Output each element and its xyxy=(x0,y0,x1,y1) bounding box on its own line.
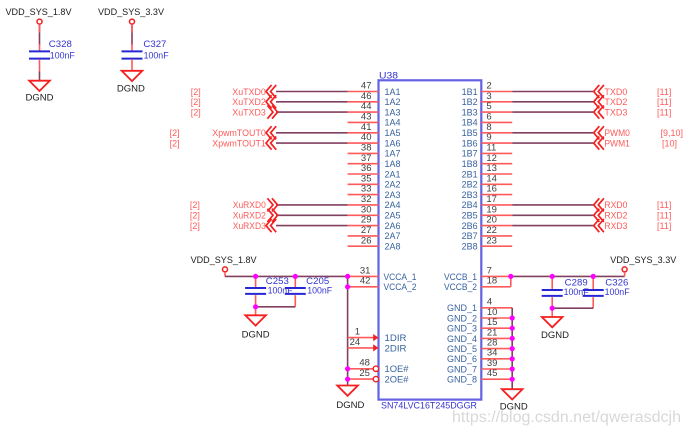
svg-text:VDD_SYS_1.8V: VDD_SYS_1.8V xyxy=(191,255,257,265)
pin 4 (GND_1) stub xyxy=(447,297,512,314)
svg-text:XuTXD0: XuTXD0 xyxy=(232,87,266,97)
svg-text:DGND: DGND xyxy=(336,400,365,410)
wire pin to net PWM0 xyxy=(512,132,593,134)
pin 25 (2OE#) with bubble xyxy=(348,368,409,385)
svg-text:1DIR: 1DIR xyxy=(385,333,408,343)
pin 11 (1B7) right stub xyxy=(462,143,513,159)
pin 46 (1A2) left stub xyxy=(348,91,401,107)
ground DGND (under C289) xyxy=(541,317,570,340)
svg-text:2B1: 2B1 xyxy=(462,169,478,179)
power symbol VDD_SYS_3.3V (bottom-right) xyxy=(610,255,676,272)
svg-text:1A5: 1A5 xyxy=(385,128,401,138)
svg-text:XuRXD2: XuRXD2 xyxy=(233,211,266,221)
pin 42 (VCCA_2) stub xyxy=(348,276,417,293)
node XuTXD0 off-page connector xyxy=(232,85,276,98)
pin 6 (1B4) right stub xyxy=(462,112,513,128)
svg-text:[11]: [11] xyxy=(657,211,671,221)
svg-text:VDD_SYS_3.3V: VDD_SYS_3.3V xyxy=(98,7,164,17)
pin 39 (GND_7) stub xyxy=(447,358,512,375)
pin 30 (2A5) left stub xyxy=(348,204,401,220)
svg-text:[2]: [2] xyxy=(191,97,201,107)
svg-text:DGND: DGND xyxy=(117,83,146,93)
svg-text:2A2: 2A2 xyxy=(385,180,401,190)
wire C327 to ground xyxy=(131,59,133,71)
pin 40 (1A6) left stub xyxy=(348,132,401,148)
junction C205 top xyxy=(293,274,298,279)
svg-text:GND_4: GND_4 xyxy=(447,334,477,344)
capacitor C289 100nF xyxy=(542,276,589,296)
pin 33 (2A3) left stub xyxy=(348,184,401,200)
pin 14 (2B2) right stub xyxy=(462,173,513,189)
pin 1 (1DIR) with input arrow xyxy=(348,327,407,344)
svg-text:2B3: 2B3 xyxy=(462,190,478,200)
svg-text:2A1: 2A1 xyxy=(385,169,401,179)
svg-text:32: 32 xyxy=(361,194,372,205)
pin 20 (2B6) right stub xyxy=(462,215,513,231)
ground DGND (under C328) xyxy=(26,81,55,103)
svg-text:100nF: 100nF xyxy=(50,51,75,61)
node XuTXD3 off-page connector xyxy=(232,106,277,119)
pin 10 (GND_2) stub xyxy=(447,307,512,324)
capacitor C327 100nF xyxy=(122,39,170,60)
svg-text:1B7: 1B7 xyxy=(462,149,478,159)
capacitor C328 100nF xyxy=(29,39,75,60)
wire GND bus vertical to ground xyxy=(511,308,513,390)
svg-text:1A8: 1A8 xyxy=(385,159,401,169)
svg-text:2A4: 2A4 xyxy=(385,200,401,210)
pin 38 (1A7) left stub xyxy=(348,143,401,159)
svg-text:2B4: 2B4 xyxy=(462,200,478,210)
svg-text:1A2: 1A2 xyxy=(385,97,401,107)
svg-text:45: 45 xyxy=(487,368,498,379)
wire VDD_SYS_3.3V to C327 xyxy=(131,24,133,50)
pin 26 (2A8) left stub xyxy=(348,235,401,251)
wire net XuTXD3 to pin xyxy=(276,111,348,113)
svg-text:VCCA_1: VCCA_1 xyxy=(384,272,417,282)
svg-text:VCCB_1: VCCB_1 xyxy=(444,272,477,282)
svg-text:[11]: [11] xyxy=(657,97,671,107)
pin 44 (1A3) left stub xyxy=(348,101,401,117)
svg-text:2A6: 2A6 xyxy=(385,221,401,231)
svg-text:23: 23 xyxy=(486,235,497,246)
wire VDD_SYS_1.8V to C328 xyxy=(39,24,41,50)
power symbol VDD_SYS_3.3V (top-left) xyxy=(98,7,164,24)
svg-text:24: 24 xyxy=(350,337,361,348)
svg-text:GND_3: GND_3 xyxy=(447,324,477,334)
svg-text:1A1: 1A1 xyxy=(385,87,401,97)
svg-text:1B4: 1B4 xyxy=(462,118,478,128)
junction pin42 xyxy=(345,284,350,289)
wire VDD_SYS_1.8V rail to VCCA pins xyxy=(225,272,348,277)
svg-text:18: 18 xyxy=(487,276,498,287)
svg-text:[2]: [2] xyxy=(191,87,201,97)
svg-text:100nF: 100nF xyxy=(605,287,630,297)
wire net XuRXD0 to pin xyxy=(276,204,348,206)
pin 12 (1B8) right stub xyxy=(462,153,513,169)
wire VCCB rail to VDD_SYS_3.3V xyxy=(511,272,625,277)
svg-text:100nF: 100nF xyxy=(144,51,169,61)
junction pin7/pin18 rail xyxy=(508,274,513,279)
svg-text:25: 25 xyxy=(359,368,370,379)
pin 7 (VCCB_1) stub xyxy=(444,265,511,282)
wire C289/C326 bottoms to ground xyxy=(552,297,593,317)
svg-text:43: 43 xyxy=(361,112,372,123)
svg-text:6: 6 xyxy=(486,112,491,123)
junction GND_2 xyxy=(510,315,515,320)
svg-text:XuRXD3: XuRXD3 xyxy=(233,221,266,231)
ground DGND (under C327) xyxy=(117,71,146,94)
op-amp U38 body (level shifter IC SN74LVC16T245DGGR) xyxy=(379,70,482,399)
svg-text:1A3: 1A3 xyxy=(385,107,401,117)
pin 21 (GND_4) stub xyxy=(447,327,512,344)
junction 1OE# xyxy=(345,366,350,371)
svg-text:C326: C326 xyxy=(605,277,628,287)
capacitor C326 100nF xyxy=(583,276,630,296)
svg-text:RXD2: RXD2 xyxy=(604,211,627,221)
svg-text:DGND: DGND xyxy=(541,330,570,340)
pin 17 (2B4) right stub xyxy=(462,194,513,210)
wire pin to net PWM1 xyxy=(512,142,593,144)
junction rail/pin31 xyxy=(345,274,350,279)
svg-text:DGND: DGND xyxy=(26,93,55,103)
svg-text:C205: C205 xyxy=(306,276,329,286)
wire net XpwmTOUT0 to pin xyxy=(276,132,348,134)
svg-text:GND_7: GND_7 xyxy=(447,364,477,374)
pin 22 (2B7) right stub xyxy=(462,225,513,241)
svg-text:1B8: 1B8 xyxy=(462,159,478,169)
svg-text:1B6: 1B6 xyxy=(462,138,478,148)
wire pin to net RXD3 xyxy=(512,225,593,227)
junction 2OE# xyxy=(345,377,350,382)
pin 34 (GND_6) stub xyxy=(447,348,512,365)
svg-text:GND_5: GND_5 xyxy=(447,344,477,354)
junction C253 bottom / ground tap xyxy=(253,304,258,309)
wire net XuRXD2 to pin xyxy=(276,214,348,216)
power symbol VDD_SYS_1.8V (bottom-left) xyxy=(191,255,257,272)
svg-text:1A7: 1A7 xyxy=(385,149,401,159)
node RXD2 off-page connector xyxy=(594,209,628,222)
svg-text:XuRXD0: XuRXD0 xyxy=(233,200,266,210)
svg-text:GND_1: GND_1 xyxy=(447,303,477,313)
pin 29 (2A6) left stub xyxy=(348,215,401,231)
wire pin to net RXD2 xyxy=(512,214,593,216)
svg-text:17: 17 xyxy=(486,194,497,205)
node TXD2 off-page connector xyxy=(594,95,628,108)
svg-text:[2]: [2] xyxy=(190,200,200,210)
node TXD0 off-page connector xyxy=(594,85,628,98)
svg-text:1B5: 1B5 xyxy=(462,128,478,138)
svg-text:XpwmTOUT0: XpwmTOUT0 xyxy=(212,128,266,138)
wire net XuTXD2 to pin xyxy=(276,101,348,103)
svg-text:XuTXD2: XuTXD2 xyxy=(232,97,266,107)
junction GND_5 xyxy=(510,346,515,351)
svg-text:VDD_SYS_1.8V: VDD_SYS_1.8V xyxy=(6,7,72,17)
pin 19 (2B5) right stub xyxy=(462,204,513,220)
pin 35 (2A2) left stub xyxy=(348,173,401,189)
wire pin to net TXD0 xyxy=(512,91,593,93)
pin 5 (1B3) right stub xyxy=(462,101,513,117)
wire pin to net TXD3 xyxy=(512,111,593,113)
power symbol VDD_SYS_1.8V (top-left) xyxy=(6,7,72,24)
svg-text:2DIR: 2DIR xyxy=(385,343,408,353)
svg-text:2OE#: 2OE# xyxy=(385,375,409,385)
svg-text:1B1: 1B1 xyxy=(462,87,478,97)
svg-text:XuTXD3: XuTXD3 xyxy=(232,107,266,117)
node XpwmTOUT0 off-page connector xyxy=(212,126,276,139)
svg-text:1A4: 1A4 xyxy=(385,118,401,128)
svg-text:[10]: [10] xyxy=(662,138,677,148)
svg-text:1OE#: 1OE# xyxy=(385,364,409,374)
wire net XpwmTOUT1 to pin xyxy=(276,142,348,144)
svg-text:TXD3: TXD3 xyxy=(604,107,627,117)
svg-text:26: 26 xyxy=(361,235,372,246)
svg-text:2A7: 2A7 xyxy=(385,231,401,241)
node XuRXD3 off-page connector xyxy=(233,219,276,232)
pin 41 (1A5) left stub xyxy=(348,122,401,138)
svg-text:C289: C289 xyxy=(565,277,588,287)
svg-text:VDD_SYS_3.3V: VDD_SYS_3.3V xyxy=(610,255,676,265)
svg-text:[11]: [11] xyxy=(657,87,671,97)
svg-text:[11]: [11] xyxy=(657,107,671,117)
pin 23 (2B8) right stub xyxy=(462,235,513,251)
pin 8 (1B5) right stub xyxy=(462,122,513,138)
svg-text:VCCA_2: VCCA_2 xyxy=(384,282,417,292)
svg-text:2B2: 2B2 xyxy=(462,180,478,190)
svg-text:[2]: [2] xyxy=(190,221,200,231)
node XuRXD2 off-page connector xyxy=(233,209,278,222)
svg-text:1B2: 1B2 xyxy=(462,97,478,107)
node XuRXD0 off-page connector xyxy=(233,198,278,211)
wire pin to net RXD0 xyxy=(512,204,593,206)
svg-text:RXD0: RXD0 xyxy=(604,200,627,210)
svg-text:GND_2: GND_2 xyxy=(447,313,477,323)
junction C289 bottom / ground tap xyxy=(550,306,555,311)
node XuTXD2 off-page connector xyxy=(232,95,276,108)
junction GND_3 xyxy=(510,326,515,331)
svg-text:C328: C328 xyxy=(49,39,72,49)
node RXD3 off-page connector xyxy=(594,219,628,232)
pin 48 (1OE#) with bubble xyxy=(348,358,409,375)
junction GND_4 xyxy=(510,336,515,341)
wire C328 to ground xyxy=(39,59,41,81)
svg-text:2A5: 2A5 xyxy=(385,211,401,221)
pin 43 (1A4) left stub xyxy=(348,112,401,128)
wire C253/C205 bottoms to ground xyxy=(256,295,296,315)
pin 27 (2A7) left stub xyxy=(348,225,401,241)
svg-text:2B5: 2B5 xyxy=(462,211,478,221)
svg-text:https://blog.csdn.net/qwerasdc: https://blog.csdn.net/qwerasdcjh xyxy=(452,409,681,426)
svg-text:2A3: 2A3 xyxy=(385,190,401,200)
capacitor C253 100nF xyxy=(245,276,293,296)
svg-text:31: 31 xyxy=(360,265,371,276)
junction GND_7 xyxy=(510,366,515,371)
pin 37 (1A8) left stub xyxy=(348,153,401,169)
pin 3 (1B2) right stub xyxy=(462,91,513,107)
svg-text:2B7: 2B7 xyxy=(462,231,478,241)
node PWM0 off-page connector xyxy=(594,126,630,139)
wire net XuTXD0 to pin xyxy=(276,91,348,93)
svg-text:[2]: [2] xyxy=(191,107,201,117)
capacitor C205 100nF xyxy=(285,276,333,296)
node XpwmTOUT1 off-page connector xyxy=(212,137,276,150)
node RXD0 off-page connector xyxy=(594,198,628,211)
svg-text:[2]: [2] xyxy=(170,138,180,148)
svg-text:2A8: 2A8 xyxy=(385,242,401,252)
pin 28 (GND_5) stub xyxy=(447,338,512,355)
wire net XuRXD3 to pin xyxy=(276,225,348,227)
pin 15 (GND_3) stub xyxy=(447,317,512,334)
svg-text:U38: U38 xyxy=(379,70,398,80)
svg-text:TXD2: TXD2 xyxy=(604,97,627,107)
junction C253 top xyxy=(253,274,258,279)
svg-text:[11]: [11] xyxy=(657,200,671,210)
pin 31 (VCCA_1) stub xyxy=(348,265,417,282)
pin 32 (2A4) left stub xyxy=(348,194,401,210)
pin 9 (1B6) right stub xyxy=(462,132,513,148)
svg-text:C327: C327 xyxy=(143,39,166,49)
svg-text:2B8: 2B8 xyxy=(462,242,478,252)
svg-text:VCCB_2: VCCB_2 xyxy=(444,282,477,292)
svg-text:GND_8: GND_8 xyxy=(447,375,477,385)
pin 18 (VCCB_2) stub with jog xyxy=(444,276,511,293)
junction GND_8 xyxy=(510,377,515,382)
svg-text:GND_6: GND_6 xyxy=(447,354,477,364)
ground DGND (bottom middle, under tie line) xyxy=(336,386,365,411)
pin 13 (2B1) right stub xyxy=(462,163,513,179)
svg-text:[9,10]: [9,10] xyxy=(661,128,684,138)
junction C326 top xyxy=(591,274,596,279)
svg-text:7: 7 xyxy=(487,265,492,276)
pin 16 (2B3) right stub xyxy=(462,184,513,200)
wire vertical tie (VCCA rail / DIR / OE# / ground) xyxy=(347,276,349,385)
wire pin to net TXD2 xyxy=(512,101,593,103)
pin 24 (2DIR) with input arrow xyxy=(348,337,407,354)
svg-text:[2]: [2] xyxy=(190,211,200,221)
pin 2 (1B1) right stub xyxy=(462,81,513,97)
svg-text:1B3: 1B3 xyxy=(462,107,478,117)
svg-text:RXD3: RXD3 xyxy=(604,221,627,231)
svg-text:2B6: 2B6 xyxy=(462,221,478,231)
ground DGND (under GND bus) xyxy=(500,389,529,411)
pin 36 (2A1) left stub xyxy=(348,163,401,179)
svg-text:XpwmTOUT1: XpwmTOUT1 xyxy=(212,138,266,148)
node PWM1 off-page connector xyxy=(594,137,630,150)
node TXD3 off-page connector xyxy=(594,106,628,119)
svg-text:C253: C253 xyxy=(266,276,289,286)
svg-text:TXD0: TXD0 xyxy=(604,87,627,97)
svg-text:DGND: DGND xyxy=(242,330,271,340)
pin 47 (1A1) left stub xyxy=(348,81,401,97)
pin 45 (GND_8) stub xyxy=(447,368,512,385)
ground DGND (under C253) xyxy=(242,315,271,339)
svg-text:1A6: 1A6 xyxy=(385,138,401,148)
svg-text:PWM0: PWM0 xyxy=(604,128,630,138)
svg-text:100nF: 100nF xyxy=(307,286,332,296)
svg-text:[2]: [2] xyxy=(170,128,180,138)
junction GND_6 xyxy=(510,356,515,361)
svg-text:PWM1: PWM1 xyxy=(604,138,630,148)
svg-text:42: 42 xyxy=(360,276,371,287)
svg-text:[11]: [11] xyxy=(657,221,671,231)
junction C289 top xyxy=(550,274,555,279)
